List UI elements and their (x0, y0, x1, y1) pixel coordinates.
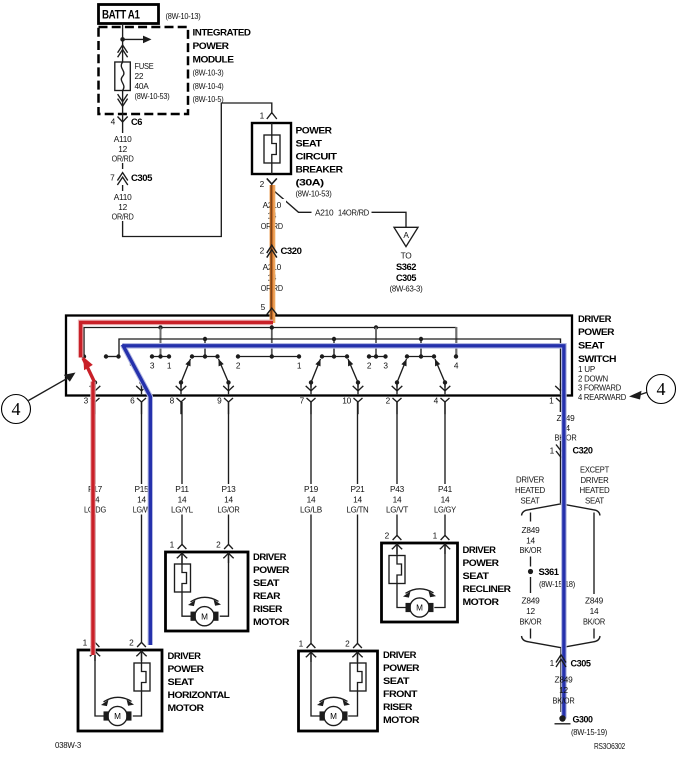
except driver heated seat option label (580, 465, 610, 506)
svg-text:TO: TO (401, 251, 413, 261)
svg-text:1: 1 (549, 396, 554, 406)
power seat circuit breaker box (252, 123, 291, 174)
svg-text:BK/OR: BK/OR (583, 617, 605, 627)
svg-text:BK/OR: BK/OR (553, 696, 575, 706)
svg-text:DRIVER: DRIVER (463, 545, 497, 555)
front riser motor pin 1 connector (299, 639, 317, 663)
drawing number RS306302 (594, 741, 625, 751)
svg-text:14: 14 (441, 495, 450, 505)
connector glyph overlays on orange wire (267, 179, 277, 315)
orange highlight wire A210 (271, 185, 272, 323)
svg-text:M: M (114, 712, 121, 721)
svg-text:FUSE: FUSE (135, 61, 155, 71)
svg-text:14: 14 (393, 495, 402, 505)
switch wiper pin 3 (red traced) (85, 361, 95, 383)
svg-text:SEAT: SEAT (585, 496, 604, 506)
svg-text:S362: S362 (396, 262, 416, 272)
svg-text:DRIVER: DRIVER (383, 650, 417, 660)
svg-text:4: 4 (454, 361, 459, 371)
svg-text:BK/OR: BK/OR (520, 545, 542, 555)
svg-text:LG/LB: LG/LB (300, 505, 323, 515)
svg-text:C320: C320 (281, 246, 302, 256)
svg-text:12: 12 (559, 685, 568, 695)
svg-text:40A: 40A (135, 81, 150, 91)
svg-text:(8W-10-3): (8W-10-3) (193, 68, 224, 78)
wire P15 LG/W (128, 402, 156, 642)
off-page triangle A (394, 227, 418, 246)
wire A110 12 OR/RD (upper) (109, 132, 136, 170)
svg-text:LG/VT: LG/VT (386, 505, 408, 515)
svg-text:P15: P15 (134, 484, 149, 494)
connector C6 pin 4 (111, 117, 143, 128)
svg-text:SWITCH: SWITCH (578, 354, 617, 364)
switch pin 5 connector (261, 302, 277, 315)
svg-text:POWER: POWER (168, 664, 205, 674)
recliner rotation arrow (403, 589, 436, 598)
recliner motor label (463, 545, 512, 607)
svg-text:BK/OR: BK/OR (520, 617, 542, 627)
svg-text:14OR/RD: 14OR/RD (338, 208, 369, 218)
svg-text:4: 4 (12, 399, 21, 419)
svg-text:POWER: POWER (296, 126, 333, 136)
horizontal motor breaker (134, 650, 150, 691)
svg-text:1: 1 (550, 446, 555, 456)
contact 4 (454, 354, 459, 370)
svg-text:12: 12 (118, 144, 127, 154)
svg-text:M: M (416, 604, 423, 613)
wire P11 LG/YL (168, 402, 196, 544)
svg-text:1: 1 (83, 638, 88, 648)
wire A210 14 OR/RD breaker to switch (black core) (271, 184, 273, 310)
recliner motor M4 (406, 598, 434, 617)
svg-text:(8W-10-4): (8W-10-4) (193, 81, 224, 91)
connector C305 pin 1 (ground) (550, 655, 591, 669)
svg-text:7: 7 (300, 396, 305, 406)
horizontal motor rotation arrow (101, 697, 134, 706)
svg-text:4: 4 (657, 379, 666, 399)
switch pin 6 connector (130, 383, 147, 414)
svg-text:6: 6 (130, 396, 135, 406)
connector C320 pin 2 (260, 245, 302, 257)
connector chevrons below fuse (118, 94, 128, 106)
svg-text:OR/RD: OR/RD (112, 154, 134, 164)
svg-text:2: 2 (345, 639, 350, 649)
svg-text:12: 12 (526, 606, 535, 616)
integrated power module label (193, 28, 252, 105)
switch ground bus wire (119, 339, 561, 388)
svg-text:1: 1 (299, 639, 304, 649)
heated-seat branch wire Z849 (left) (520, 513, 542, 567)
svg-text:MOTOR: MOTOR (253, 617, 290, 627)
blue highlight wire ground trace (122, 345, 564, 719)
rear riser motor M1 (191, 607, 219, 626)
switch wiper pin 4 (432, 358, 445, 383)
svg-text:HEATED: HEATED (580, 485, 610, 495)
rear riser rotation arrow (188, 597, 221, 606)
stubs from lower contacts to pins (95, 383, 445, 388)
svg-text:P21: P21 (350, 484, 365, 494)
svg-text:SEAT: SEAT (168, 677, 195, 687)
svg-text:P19: P19 (304, 484, 319, 494)
svg-text:A210: A210 (315, 208, 334, 218)
svg-text:SEAT: SEAT (578, 341, 605, 351)
svg-text:RS3O6302: RS3O6302 (594, 741, 625, 751)
svg-text:C6: C6 (131, 117, 142, 127)
svg-text:MODULE: MODULE (193, 55, 234, 65)
wire A110 12 OR/RD (lower) + elbow to breaker (109, 103, 272, 237)
contact group pins 8/9 (190, 354, 220, 358)
svg-text:RISER: RISER (253, 604, 283, 614)
svg-text:DRIVER: DRIVER (581, 475, 609, 485)
switch lower contact nodes (93, 380, 447, 384)
fuse 22 40A (115, 62, 131, 91)
svg-text:M: M (330, 712, 337, 721)
svg-text:EXCEPT: EXCEPT (580, 465, 609, 475)
svg-text:5: 5 (261, 302, 266, 312)
wire P41 LG/GY (431, 402, 459, 535)
svg-text:14: 14 (590, 606, 599, 616)
svg-text:2: 2 (386, 396, 391, 406)
front riser motor M3 (320, 706, 348, 725)
contact group pins 2/4 (405, 354, 436, 358)
svg-text:C320: C320 (573, 446, 593, 456)
ground bus junction nodes (203, 337, 423, 341)
svg-text:1: 1 (550, 658, 555, 668)
svg-text:2: 2 (367, 361, 372, 371)
svg-text:1: 1 (297, 361, 302, 371)
switch pin 9 connector (217, 383, 234, 414)
svg-text:1: 1 (170, 540, 175, 550)
svg-text:OR/RD: OR/RD (112, 212, 134, 222)
splice S361 (528, 567, 576, 589)
svg-text:7: 7 (110, 173, 115, 183)
svg-text:(8W-10-53): (8W-10-53) (135, 91, 170, 101)
driver power seat switch box (66, 316, 572, 396)
contact group 2-1 center feed (236, 354, 302, 370)
driver heated seat option label (515, 475, 545, 506)
svg-text:MOTOR: MOTOR (383, 715, 420, 725)
svg-text:Z849: Z849 (555, 675, 574, 685)
svg-text:POWER: POWER (253, 565, 290, 575)
svg-text:(30A): (30A) (296, 178, 324, 188)
svg-text:DRIVER: DRIVER (253, 552, 287, 562)
rear riser motor breaker (175, 552, 191, 592)
red highlight wire B+ trace (81, 322, 273, 655)
svg-text:SEAT: SEAT (383, 676, 410, 686)
svg-text:INTEGRATED: INTEGRATED (193, 28, 252, 38)
svg-text:3: 3 (84, 396, 89, 406)
switch pin 2 connector (386, 383, 403, 414)
option merge brace bottom (522, 636, 601, 648)
driver power seat front riser motor box (299, 651, 378, 731)
svg-text:DRIVER: DRIVER (168, 651, 202, 661)
callout circle 4 left (2, 373, 76, 424)
svg-text:SEAT: SEAT (296, 139, 323, 149)
svg-text:CIRCUIT: CIRCUIT (296, 152, 338, 162)
rear riser motor pin 2 connector (216, 540, 234, 564)
switch pin 1 connector (549, 383, 566, 414)
battery feed box BATT A1 (99, 5, 159, 24)
wire P17 LG/DG (81, 402, 109, 642)
circuit breaker element (264, 123, 280, 174)
connector C305 pin 7 (110, 173, 152, 186)
svg-text:3: 3 (150, 361, 155, 371)
switch wiper pin 6 (127, 357, 142, 382)
svg-text:2: 2 (236, 361, 241, 371)
breaker pin 1 connector (260, 111, 277, 121)
fuse label (135, 61, 170, 101)
contact group 3-1 (150, 354, 172, 370)
wire fuse to C6 (122, 91, 124, 132)
svg-text:LG/YL: LG/YL (171, 505, 194, 515)
svg-text:1: 1 (167, 361, 172, 371)
svg-text:P43: P43 (390, 484, 405, 494)
svg-text:(8W-15-19): (8W-15-19) (571, 727, 607, 737)
contact group pins 7/10 (320, 354, 349, 358)
wire label Z849 12 BK/OR (ground) (553, 675, 575, 706)
switch position legend (578, 364, 626, 402)
wire from BATT A1 into fuse (122, 24, 124, 63)
switch wiper pin 2 (397, 358, 409, 383)
svg-text:C305: C305 (571, 659, 591, 669)
svg-text:1: 1 (433, 531, 438, 541)
svg-text:Z849: Z849 (522, 525, 541, 535)
wire P13 LG/OR (215, 402, 243, 544)
bus contact stubs (161, 328, 377, 357)
driver power seat switch label (578, 314, 617, 364)
wire label A210 14 OR/RD (lower) (258, 261, 286, 293)
integrated power module dashed box (99, 27, 189, 114)
front riser motor breaker (350, 651, 366, 691)
front riser motor pin 2 connector (345, 639, 363, 663)
horizontal motor wiring (95, 650, 142, 716)
connector chevrons above fuse (118, 45, 128, 57)
svg-text:SEAT: SEAT (463, 571, 490, 581)
svg-text:LG/TN: LG/TN (347, 505, 369, 515)
svg-text:Z849: Z849 (585, 596, 604, 606)
wire P43 LG/VT (383, 402, 411, 535)
svg-text:MOTOR: MOTOR (463, 597, 500, 607)
junction node in IPM (120, 37, 125, 42)
switch wiper pin 10 (345, 358, 358, 383)
svg-text:A: A (403, 230, 409, 240)
svg-text:DRIVER: DRIVER (516, 475, 544, 485)
ground wire Z849 below switch pin 1 (black core) (551, 396, 580, 504)
svg-text:(8W-63-3): (8W-63-3) (390, 284, 423, 294)
contact group pins 3/6 (82, 354, 121, 358)
svg-text:RISER: RISER (383, 702, 413, 712)
driver power seat recliner motor box (382, 543, 458, 622)
wire P19 LG/LB (297, 402, 325, 643)
svg-text:14: 14 (178, 495, 187, 505)
svg-text:FRONT: FRONT (383, 689, 418, 699)
svg-text:BREAKER: BREAKER (296, 165, 344, 175)
svg-text:POWER: POWER (578, 327, 615, 337)
switch pin 10 connector (342, 383, 363, 414)
svg-text:4 REARWARD: 4 REARWARD (578, 392, 626, 402)
ground G300 (555, 715, 608, 738)
switch pin 3 connector (84, 383, 101, 414)
svg-text:SEAT: SEAT (521, 496, 540, 506)
svg-text:A110: A110 (114, 192, 132, 202)
power seat circuit breaker label (296, 126, 344, 199)
option split brace top (522, 504, 601, 516)
svg-text:POWER: POWER (193, 41, 230, 51)
breaker pin 2 connector (260, 179, 277, 190)
svg-text:14: 14 (224, 495, 233, 505)
svg-text:2: 2 (260, 246, 265, 256)
rear riser motor pin 1 connector (170, 540, 188, 564)
svg-text:G300: G300 (573, 715, 593, 725)
svg-text:LG/OR: LG/OR (218, 505, 240, 515)
svg-text:14: 14 (137, 495, 146, 505)
switch pin 4 connector (434, 383, 451, 414)
svg-text:2: 2 (385, 531, 390, 541)
wire label A210 14 OR/RD (upper) (258, 199, 286, 231)
svg-text:8: 8 (170, 396, 175, 406)
switch B+ feed stub from pin 5 (271, 316, 273, 357)
wire P21 LG/TN (344, 402, 372, 643)
svg-text:1: 1 (260, 111, 265, 121)
recliner motor pin 1 connector (433, 531, 451, 555)
switch wiper pin 7 (311, 358, 323, 383)
svg-text:14: 14 (526, 536, 535, 546)
heated-seat branch wire Z849 12 (left lower) (520, 577, 542, 639)
recliner motor breaker (389, 543, 405, 584)
svg-text:M: M (201, 612, 208, 621)
svg-text:P41: P41 (438, 484, 453, 494)
recliner motor wiring (397, 543, 445, 608)
switch wiper pin 8 (181, 358, 193, 383)
svg-text:038W-3: 038W-3 (55, 740, 82, 750)
switch pin 8 connector (170, 383, 187, 414)
svg-text:DRIVER: DRIVER (578, 314, 612, 324)
svg-text:22: 22 (135, 71, 144, 81)
ground bus contact stubs (205, 339, 421, 357)
svg-text:HORIZONTAL: HORIZONTAL (168, 690, 231, 700)
svg-text:MOTOR: MOTOR (168, 703, 205, 713)
connector C320 pin 1 (ground) (550, 445, 593, 458)
svg-text:(8W-10-5): (8W-10-5) (193, 94, 224, 104)
svg-text:POWER: POWER (383, 663, 420, 673)
rear riser motor wiring (182, 552, 229, 616)
switch B+ bus wire (A210 feed bus) (84, 327, 456, 357)
svg-text:14: 14 (353, 495, 362, 505)
svg-text:C305: C305 (396, 273, 416, 283)
driver power seat rear riser motor box (166, 552, 249, 631)
svg-text:P13: P13 (221, 484, 236, 494)
svg-text:RECLINER: RECLINER (463, 584, 512, 594)
svg-text:2: 2 (260, 179, 265, 189)
svg-text:3: 3 (383, 361, 388, 371)
reference (8W-10-13) (166, 11, 201, 21)
svg-text:(8W-15-18): (8W-15-18) (539, 579, 575, 589)
svg-text:2: 2 (129, 638, 134, 648)
driver power seat horizontal motor box (78, 650, 162, 731)
svg-text:REAR: REAR (253, 591, 281, 601)
svg-text:(8W-10-13): (8W-10-13) (166, 11, 201, 21)
to S362 C305 label (390, 251, 423, 294)
switch pin 7 connector (300, 383, 317, 414)
ground wire to C305 (black core) (560, 648, 562, 712)
recliner motor pin 2 connector (385, 531, 403, 555)
svg-text:12: 12 (118, 202, 127, 212)
svg-text:2: 2 (216, 540, 221, 550)
svg-text:(8W-10-53): (8W-10-53) (296, 189, 332, 199)
horizontal motor M2 (104, 706, 132, 725)
svg-text:HEATED: HEATED (515, 485, 545, 495)
rear riser motor label (253, 552, 290, 627)
horizontal motor pin 2 connector (129, 638, 147, 662)
bus junction nodes (158, 325, 378, 329)
horizontal motor label (168, 651, 231, 713)
svg-text:P11: P11 (175, 484, 189, 494)
branch arrow to other circuits (123, 36, 152, 44)
branch wire to S362 (273, 190, 406, 227)
svg-text:9: 9 (217, 396, 222, 406)
horizontal motor pin 1 connector (83, 638, 101, 662)
svg-text:14: 14 (307, 495, 316, 505)
sheet number 038W-3 (55, 740, 82, 750)
front riser motor wiring (311, 651, 358, 716)
svg-text:SEAT: SEAT (253, 578, 280, 588)
front riser rotation arrow (317, 697, 350, 706)
contact group 2-3 (367, 354, 389, 370)
svg-text:10: 10 (342, 396, 351, 406)
switch wiper pin 9 (216, 358, 229, 383)
svg-text:A110: A110 (114, 134, 132, 144)
svg-text:BATT A1: BATT A1 (102, 8, 140, 22)
svg-text:4: 4 (111, 117, 116, 127)
except-heated branch wire Z849 14 (right) (583, 513, 605, 639)
svg-text:S361: S361 (539, 567, 559, 577)
svg-text:Z849: Z849 (522, 596, 541, 606)
svg-text:C305: C305 (131, 173, 152, 183)
svg-text:POWER: POWER (463, 558, 500, 568)
svg-text:4: 4 (434, 396, 439, 406)
front riser motor label (383, 650, 420, 725)
svg-text:LG/GY: LG/GY (434, 505, 457, 515)
callout circle 4 right (629, 375, 676, 404)
